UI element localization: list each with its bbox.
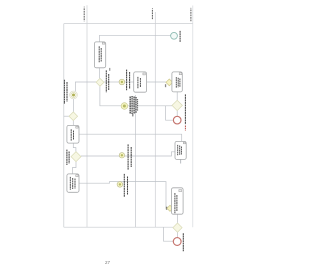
lane label 2 — [152, 8, 153, 20]
task T2 marker — [143, 73, 145, 75]
link event L3 label — [128, 144, 131, 169]
wire gateway4->end1 — [176, 111, 178, 117]
link event L1 — [119, 79, 125, 85]
wire gateway2->task4 — [72, 121, 74, 126]
task T6 — [175, 141, 186, 159]
gateway G4 — [172, 100, 182, 110]
pool bottom line — [64, 226, 173, 228]
task T4 marker — [76, 126, 78, 128]
task T5 — [67, 174, 79, 192]
wire link1->task2 — [125, 81, 134, 83]
task T7 — [172, 188, 184, 214]
link event L3 — [119, 153, 124, 158]
lane right edge x=192.8 — [192, 6, 194, 228]
event E2 label — [64, 80, 67, 104]
task T6 marker — [183, 142, 185, 144]
end event E3 — [173, 238, 181, 246]
gateway G4 / end1 label column — [184, 94, 186, 124]
gateway G2 — [69, 112, 78, 121]
blob tail mark — [132, 114, 133, 117]
task T4 — [67, 125, 79, 143]
wire event2->gateway2 — [73, 99, 75, 112]
gateway G1 label — [106, 70, 108, 92]
gateway G3 — [71, 152, 81, 162]
wire task7->gateway7 — [176, 214, 178, 223]
wire branch into end1 left — [166, 106, 174, 120]
wire task2->gateway5 — [147, 81, 166, 83]
wire gateway1->event2 left lane — [75, 82, 96, 91]
task T2 — [134, 72, 147, 92]
gateway G1 — [96, 78, 104, 86]
lane divider x=87 — [86, 5, 88, 227]
arrow mark into gateway G6 — [166, 207, 167, 210]
lane label 3 — [190, 8, 191, 22]
wire task1->gateway1 — [99, 68, 101, 79]
wire task5->link4->gateway6 — [79, 182, 167, 209]
wire start->task1 — [100, 35, 171, 42]
link event L2 — [121, 103, 128, 110]
wire gateway1->link1 — [104, 81, 119, 83]
wire task4->gateway3 — [73, 143, 76, 152]
lane label 1 — [84, 7, 85, 22]
task T1 text — [99, 46, 101, 62]
pool left edge / loop connector x=63.8 — [63, 24, 65, 228]
end1 red label segment — [184, 126, 186, 131]
task T1 marker — [102, 42, 105, 44]
wire gateway1 bottom to gateway4 left — [100, 86, 172, 106]
task T7 marker — [179, 190, 182, 192]
connector vertical x=135.4 — [134, 95, 136, 227]
gateway G5 (small) — [166, 79, 173, 86]
link event L2 dense label blob — [130, 96, 137, 114]
task T5 marker — [76, 175, 78, 177]
wire gateway2 left loop — [64, 115, 69, 117]
task T3 — [172, 72, 182, 92]
gateway G7 — [173, 223, 182, 232]
task T3 text — [176, 77, 180, 88]
link event L4 — [117, 182, 123, 188]
task T3 marker — [179, 73, 182, 75]
lane divider x=155.3 — [154, 12, 156, 227]
task T1 — [94, 42, 105, 68]
link event L1 label — [127, 70, 130, 91]
flow label near T1 — [109, 68, 110, 71]
wire task3->gateway4 — [176, 92, 178, 100]
task T6 text — [178, 145, 182, 155]
lane header line — [64, 23, 193, 25]
task T5 text — [70, 177, 75, 190]
end event E3 label — [182, 233, 184, 251]
wire gateway3->task5 — [73, 162, 77, 174]
wire task6 bottom stub — [180, 159, 182, 163]
svg-text:27: 27 — [105, 260, 111, 265]
wire gateway3->link3->task6 left — [81, 152, 175, 156]
intermediate event E2 (left lane) — [70, 91, 78, 99]
link event L4 label — [124, 174, 127, 197]
start event label — [179, 31, 181, 42]
gateway G3 label — [67, 150, 69, 165]
wire bottom branch into end2 left — [164, 227, 174, 241]
arrow mark into gateway G5 — [165, 84, 166, 87]
wire task4->task6 top — [79, 134, 182, 141]
wire gateway7->end2 — [176, 232, 178, 238]
task T4 text — [71, 129, 73, 140]
end event E1 — [173, 116, 181, 124]
gateway G6 (small) — [167, 205, 173, 211]
start event S1 — [171, 32, 178, 39]
task T7 text — [175, 193, 177, 213]
task T2 text — [138, 77, 141, 88]
